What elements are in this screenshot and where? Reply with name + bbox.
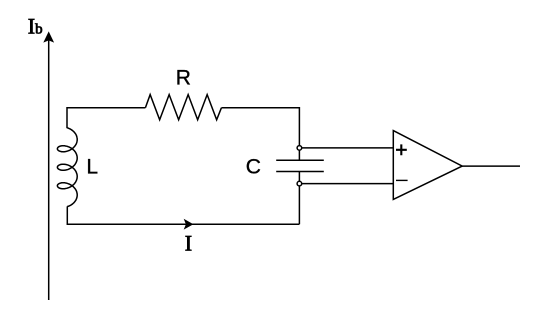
wire op-amp plus input — [302, 147, 394, 149]
wire op-amp minus input — [302, 183, 394, 185]
node Ib arrowhead — [43, 31, 54, 42]
wire right side lower segment — [298, 172, 300, 225]
node terminal bottom circle — [297, 181, 302, 186]
wire Ib vertical arrow line — [48, 41, 50, 301]
svg-text:R: R — [176, 66, 191, 89]
svg-text:L: L — [86, 155, 98, 178]
wire top side of loop (right segment) — [221, 108, 299, 161]
op-amp U1 triangle — [393, 131, 462, 200]
op-amp plus sign — [396, 144, 407, 155]
svg-text:Ib: Ib — [28, 13, 43, 38]
resistor R1 zigzag — [145, 95, 221, 120]
wire op-amp output — [462, 165, 520, 167]
wire top side of loop (left segment) — [67, 108, 145, 129]
node terminal top circle — [297, 146, 302, 151]
inductor L1 coil — [57, 128, 77, 207]
svg-text:I: I — [185, 230, 192, 255]
op-amp minus sign — [396, 179, 408, 181]
node I arrowhead on bottom wire — [184, 219, 194, 230]
svg-text:C: C — [246, 155, 261, 178]
wire left side bottom stub — [67, 206, 299, 224]
capacitor C1 bottom plate — [276, 171, 324, 173]
capacitor C1 top plate — [276, 159, 324, 161]
